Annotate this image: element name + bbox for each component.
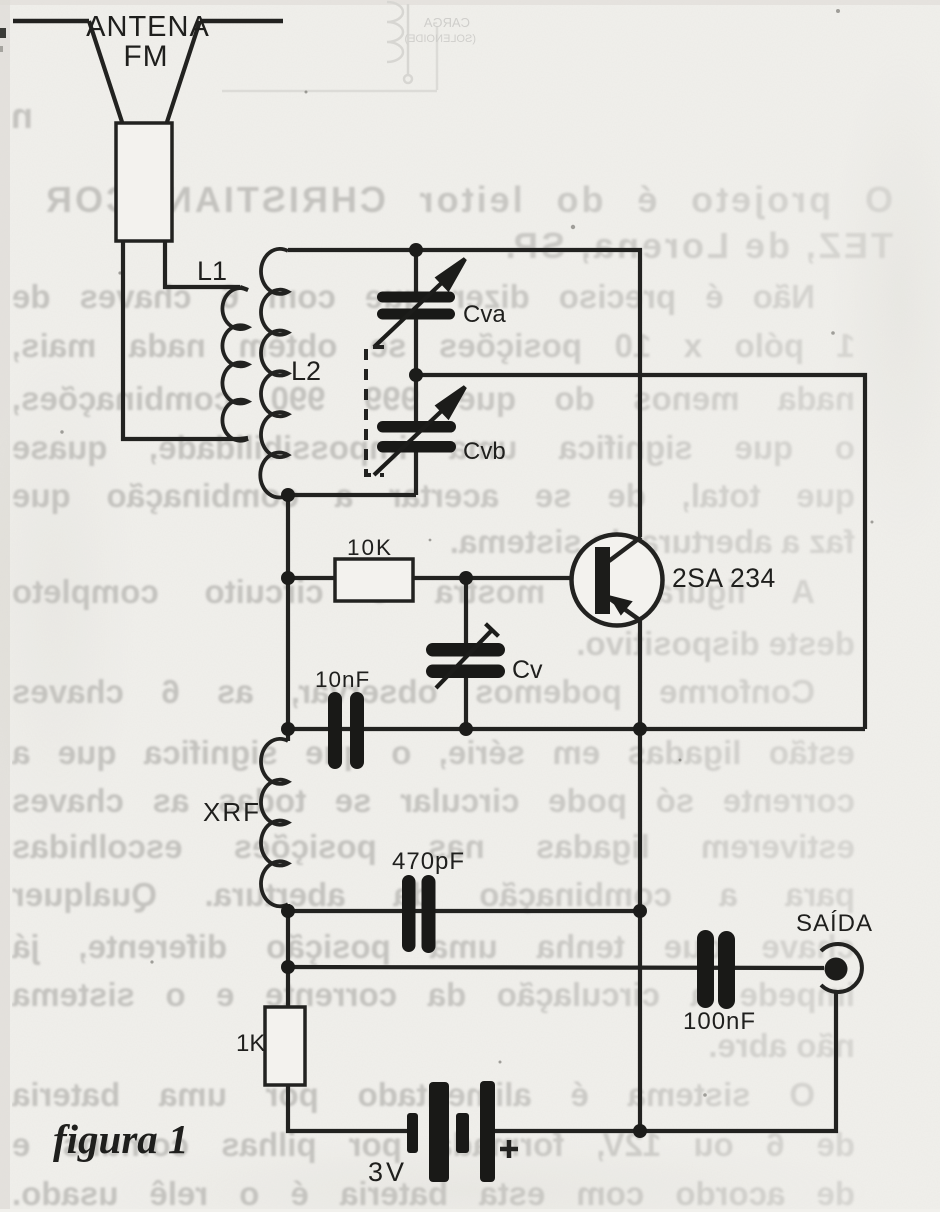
svg-text:L2: L2: [291, 356, 321, 386]
svg-text:Cva: Cva: [463, 301, 506, 328]
svg-text:Cvb: Cvb: [463, 438, 506, 465]
svg-text:10nF: 10nF: [315, 667, 370, 692]
svg-text:1K: 1K: [236, 1030, 265, 1057]
svg-text:100nF: 100nF: [683, 1008, 756, 1035]
svg-text:ANTENA: ANTENA: [86, 11, 210, 43]
svg-text:figura 1: figura 1: [53, 1116, 189, 1162]
svg-text:XRF: XRF: [203, 797, 261, 827]
svg-text:Cv: Cv: [512, 656, 543, 684]
svg-text:L1: L1: [197, 256, 227, 286]
svg-text:470pF: 470pF: [392, 848, 465, 875]
svg-text:2SA 234: 2SA 234: [672, 563, 776, 593]
svg-text:(SOLENOIDE): (SOLENOIDE): [404, 33, 476, 45]
svg-text:FM: FM: [123, 40, 168, 73]
svg-text:SAÍDA: SAÍDA: [796, 910, 873, 937]
svg-text:10K: 10K: [347, 535, 393, 560]
svg-text:3V: 3V: [368, 1157, 407, 1187]
svg-text:CARGA: CARGA: [423, 15, 470, 30]
